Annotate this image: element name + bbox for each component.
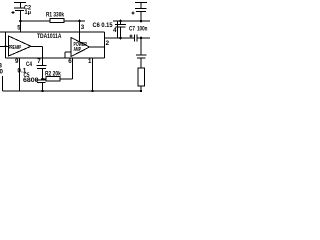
svg-text:6: 6 <box>68 58 72 65</box>
svg-text:7: 7 <box>37 58 41 65</box>
svg-text:AMP: AMP <box>74 47 82 53</box>
svg-text:C4: C4 <box>26 61 32 68</box>
svg-text:C7: C7 <box>129 26 135 33</box>
svg-text:C6 0.15: C6 0.15 <box>93 22 114 29</box>
svg-text:9: 9 <box>15 58 19 65</box>
svg-text:R2 20k: R2 20k <box>45 71 61 78</box>
svg-text:6800: 6800 <box>23 77 39 84</box>
svg-text:PREAMP: PREAMP <box>9 45 22 51</box>
svg-text:TDA1011A: TDA1011A <box>37 33 62 40</box>
svg-text:1μ: 1μ <box>25 10 32 16</box>
svg-text:3: 3 <box>81 24 85 31</box>
svg-text:2: 2 <box>106 40 110 47</box>
svg-text:R1 330k: R1 330k <box>46 11 64 18</box>
svg-text:1: 1 <box>88 58 92 65</box>
svg-text:100n: 100n <box>137 26 148 33</box>
svg-text:4: 4 <box>113 27 117 34</box>
svg-text:5: 5 <box>17 24 21 31</box>
